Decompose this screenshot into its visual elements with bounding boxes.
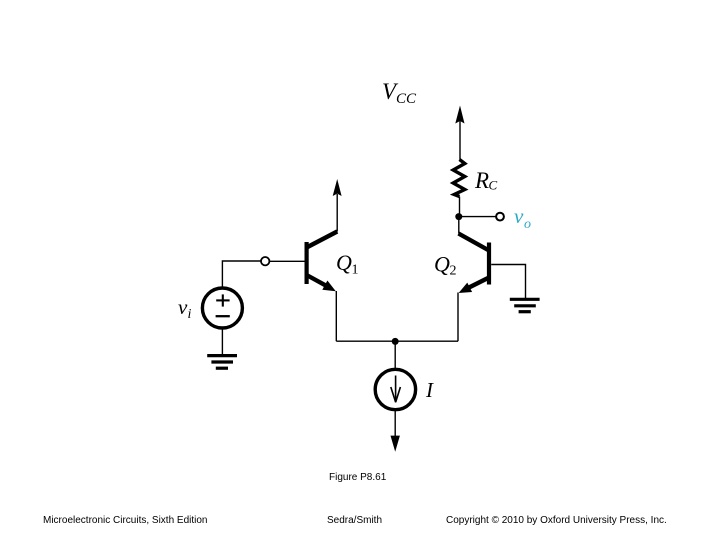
resistor RC [453, 160, 465, 197]
svg-text:CC: CC [396, 91, 417, 107]
footer book title [43, 515, 208, 526]
wire vi to Q1 base [222, 261, 260, 288]
svg-text:Q: Q [336, 250, 352, 275]
wire vi to ground [221, 328, 223, 355]
svg-text:C: C [489, 178, 498, 193]
label Q1 [336, 250, 359, 278]
source vi [202, 288, 242, 328]
svg-text:v: v [178, 295, 188, 319]
svg-text:2: 2 [450, 264, 457, 279]
current source I [375, 369, 415, 409]
svg-text:o: o [524, 217, 531, 232]
footer authors [327, 515, 382, 526]
ground (right, Q2 base) [510, 299, 540, 311]
wire current source output with arrow [391, 411, 400, 452]
footer copyright [446, 515, 667, 526]
svg-text:Q: Q [434, 252, 450, 277]
svg-text:1: 1 [352, 263, 359, 278]
svg-text:i: i [188, 307, 192, 322]
node input open circle [261, 257, 269, 265]
transistor Q2 [459, 234, 490, 294]
node VCC label [382, 79, 417, 107]
label RC [474, 168, 498, 193]
wire junction to current source [394, 341, 396, 369]
caption Figure P8.61 [329, 472, 386, 483]
svg-text:v: v [514, 204, 524, 228]
svg-text:R: R [474, 168, 489, 193]
label vo [514, 204, 531, 232]
transistor Q1 [307, 232, 338, 292]
wire resistor to node [459, 197, 461, 218]
label vi [178, 295, 192, 322]
wire Q1 emitter down to common bus [335, 291, 337, 341]
label Q2 [434, 252, 457, 279]
wire node down to Q2 collector [458, 217, 460, 234]
ground (left, below vi) [207, 356, 237, 369]
node vo open terminal [496, 213, 504, 221]
wire node to output terminal [459, 216, 496, 218]
wire common emitter bus [336, 340, 458, 342]
wire VCC supply lead with arrow [455, 106, 464, 161]
wire Q1 collector with arrow [333, 179, 342, 232]
node common emitter junction dot [392, 338, 399, 345]
node junction dot (collector node) [455, 213, 462, 220]
svg-text:I: I [425, 378, 434, 402]
wire open circle to Q1 base bar [270, 260, 305, 262]
wire Q2 emitter down to common node [457, 293, 459, 342]
wire Q2 base to ground [491, 265, 525, 299]
